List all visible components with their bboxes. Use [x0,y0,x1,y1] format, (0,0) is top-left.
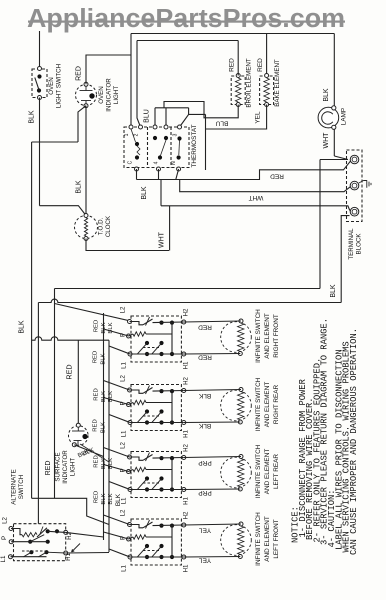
svg-text:RED: RED [198,354,212,361]
svg-text:BLK: BLK [108,391,114,402]
svg-text:CAN CAUSE IMPROPER AND DANGERO: CAN CAUSE IMPROPER AND DANGEROUS OPERATI… [349,328,359,555]
svg-text:RIGHT FRONT: RIGHT FRONT [273,314,280,358]
svg-text:AppliancePartsPros.com: AppliancePartsPros.com [27,5,345,33]
svg-text:L1: L1 [121,565,128,572]
svg-text:INFINITE SWITCH: INFINITE SWITCH [255,377,262,431]
svg-text:INDICATOR: INDICATOR [106,78,113,112]
svg-text:INFINITE SWITCH: INFINITE SWITCH [255,444,262,498]
svg-text:RED: RED [45,461,52,476]
svg-text:BLU: BLU [144,109,151,123]
svg-text:RED: RED [65,364,74,379]
svg-text:WHT: WHT [323,132,330,149]
svg-text:YEL: YEL [255,111,262,124]
svg-text:L2: L2 [119,442,126,449]
svg-text:SWITCH: SWITCH [18,475,25,499]
svg-text:PRP: PRP [198,459,211,466]
svg-text:P: P [1,536,8,540]
svg-text:OVEN: OVEN [48,77,55,95]
svg-text:LEFT FRONT: LEFT FRONT [273,519,280,558]
svg-text:LEFT REAR: LEFT REAR [273,454,280,489]
svg-text:LIGHT: LIGHT [113,86,120,104]
svg-text:L2: L2 [119,375,126,382]
svg-text:CLOCK: CLOCK [105,215,112,237]
svg-text:AND ELEMENT: AND ELEMENT [264,449,271,495]
svg-text:RED: RED [94,491,100,503]
svg-text:H2: H2 [183,443,190,451]
svg-text:AND ELEMENT: AND ELEMENT [264,313,271,359]
svg-text:H2: H2 [183,511,190,519]
svg-text:BROIL ELEMENT: BROIL ELEMENT [246,58,253,108]
svg-text:H2: H2 [183,376,190,384]
svg-text:L2: L2 [119,306,126,313]
svg-text:BLK: BLK [330,284,337,298]
svg-text:BLU: BLU [215,120,228,127]
svg-text:RED: RED [93,351,99,363]
svg-text:L1: L1 [0,555,7,562]
svg-text:BLK: BLK [101,422,107,433]
svg-text:SURFACE: SURFACE [55,452,62,481]
svg-text:BLK: BLK [19,320,26,334]
svg-text:LIGHT: LIGHT [70,458,77,476]
svg-text:BLK: BLK [101,322,107,333]
svg-text:H1: H1 [65,552,72,560]
svg-text:BLK: BLK [108,493,114,504]
svg-text:H1: H1 [183,564,190,572]
svg-text:RED: RED [93,419,99,431]
svg-text:BLK: BLK [141,186,148,200]
svg-text:BLK: BLK [76,180,83,194]
svg-text:RED: RED [94,455,100,467]
svg-text:BLK: BLK [108,322,114,333]
svg-text:L1: L1 [121,430,128,437]
svg-text:BLK: BLK [323,88,330,102]
svg-text:RIGHT REAR: RIGHT REAR [273,384,280,424]
svg-text:PRP: PRP [198,489,211,496]
svg-text:BLK: BLK [101,493,107,504]
svg-text:RED: RED [76,66,83,81]
svg-text:L2: L2 [119,509,126,516]
svg-text:OVEN: OVEN [98,86,105,104]
svg-text:BAKE ELEMENT: BAKE ELEMENT [274,59,281,107]
svg-text:INDICATOR: INDICATOR [62,450,69,484]
svg-text:YEL: YEL [198,527,211,534]
svg-text:C: C [128,160,134,164]
svg-text:4: 4 [154,161,160,164]
svg-text:T.O.D.: T.O.D. [98,217,105,235]
svg-text:H1: H1 [183,429,190,437]
svg-text:3: 3 [173,133,179,136]
svg-text:BLK: BLK [101,458,107,469]
svg-text:AND ELEMENT: AND ELEMENT [264,516,271,562]
svg-text:N: N [171,161,177,165]
svg-text:BLK: BLK [108,458,114,469]
svg-text:H1: H1 [183,496,190,504]
svg-text:LIGHT SWITCH: LIGHT SWITCH [56,64,63,108]
svg-text:BLK: BLK [101,353,107,364]
svg-text:RED: RED [198,324,212,331]
svg-text:ALTERNATE: ALTERNATE [11,469,18,505]
svg-text:BLOCK: BLOCK [356,233,363,255]
svg-text:2: 2 [134,133,140,136]
svg-text:INFINITE SWITCH: INFINITE SWITCH [255,309,262,363]
svg-text:BLK: BLK [101,391,107,402]
svg-text:RED: RED [229,58,236,72]
svg-text:L1: L1 [121,362,128,369]
svg-text:H2: H2 [183,308,190,316]
svg-text:RED: RED [270,173,284,180]
svg-text:LAMP: LAMP [341,108,348,125]
svg-text:H1: H1 [183,361,190,369]
svg-text:RED: RED [257,58,264,72]
svg-text:BLK: BLK [29,110,36,124]
svg-text:THERMOSTAT: THERMOSTAT [191,124,198,167]
svg-text:YEL: YEL [198,557,211,564]
svg-text:BLK: BLK [115,493,122,506]
svg-text:INFINITE SWITCH: INFINITE SWITCH [255,512,262,566]
svg-text:L2: L2 [2,517,9,524]
svg-text:1: 1 [124,133,130,136]
svg-text:WHT: WHT [249,194,264,201]
svg-text:WHT: WHT [159,231,166,248]
svg-text:AND ELEMENT: AND ELEMENT [264,382,271,428]
svg-text:RED: RED [94,388,100,400]
svg-text:RED: RED [94,320,100,332]
svg-text:TERMINAL: TERMINAL [348,228,355,260]
svg-text:BLK: BLK [198,392,211,399]
svg-text:BLK: BLK [198,422,211,429]
